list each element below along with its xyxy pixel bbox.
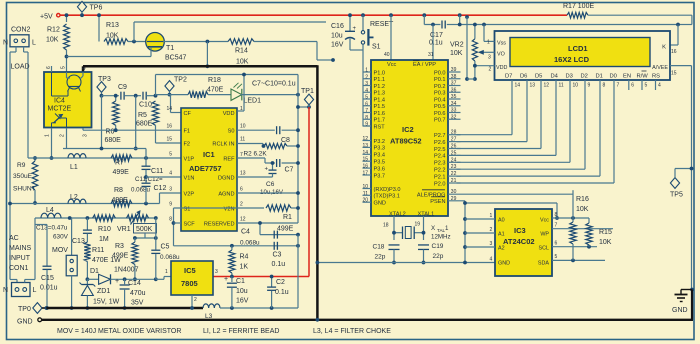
svg-text:R8: R8 [114, 187, 123, 194]
svg-text:R18: R18 [208, 77, 221, 84]
svg-text:TP5: TP5 [670, 192, 683, 199]
svg-text:SCL: SCL [539, 246, 550, 252]
svg-text:S0: S0 [228, 129, 235, 135]
pin 1 [51, 128, 53, 158]
svg-text:P1.5: P1.5 [374, 104, 386, 110]
svg-text:AT24C02: AT24C02 [503, 237, 535, 246]
svg-text:15: 15 [362, 157, 368, 163]
svg-text:9: 9 [588, 83, 591, 89]
IC3 right pins [552, 217, 589, 219]
svg-text:2: 2 [194, 297, 197, 303]
svg-text:ALE/PROG: ALE/PROG [417, 193, 446, 199]
svg-text:19: 19 [415, 222, 421, 228]
wire black riser to GND line [691, 290, 693, 320]
switch S1 RESET [361, 13, 365, 17]
svg-text:C2: C2 [276, 279, 285, 286]
svg-text:IC5: IC5 [184, 266, 196, 275]
test point TP2 [165, 81, 174, 92]
resistor R18 [188, 91, 208, 97]
svg-text:10u: 10u [331, 33, 343, 40]
svg-text:SDA: SDA [538, 261, 549, 267]
svg-text:IC3: IC3 [514, 226, 526, 235]
ground symbol [690, 288, 694, 292]
svg-text:P2.6: P2.6 [434, 140, 446, 146]
svg-text:13: 13 [240, 171, 246, 177]
svg-text:C8: C8 [281, 137, 290, 144]
svg-text:1: 1 [487, 40, 490, 46]
inductor L2 [68, 199, 86, 203]
IC3 left pins [465, 218, 495, 220]
svg-text:N: N [3, 287, 8, 294]
svg-text:INPUT: INPUT [9, 255, 31, 262]
svg-text:680E: 680E [136, 121, 153, 128]
svg-text:VDD: VDD [496, 65, 507, 71]
filter choke L4 row [35, 217, 156, 219]
svg-text:0.1u: 0.1u [272, 261, 286, 268]
svg-text:TP6: TP6 [90, 5, 103, 12]
svg-text:IC4: IC4 [54, 98, 65, 105]
svg-text:C18: C18 [373, 244, 385, 251]
LED1 [231, 89, 242, 100]
energy meter IC1 ADE7757 [181, 108, 237, 231]
svg-text:L: L [32, 40, 36, 47]
svg-text:P2.4: P2.4 [434, 154, 446, 160]
svg-text:5: 5 [555, 254, 558, 260]
svg-text:D0: D0 [610, 74, 617, 80]
wire row to IC4 pin2 [63, 148, 146, 150]
capacitor C19 [418, 244, 429, 246]
svg-text:TP1: TP1 [301, 88, 314, 95]
resistor R8 [111, 200, 132, 206]
svg-text:RCLK IN: RCLK IN [212, 141, 234, 147]
svg-text:RESERVED: RESERVED [204, 221, 235, 227]
svg-text:P3.7: P3.7 [374, 173, 386, 179]
wire PSEN to IC3 col [448, 200, 465, 202]
svg-text:C11: C11 [151, 168, 163, 175]
svg-text:A2: A2 [498, 246, 505, 252]
svg-text:S1: S1 [184, 206, 191, 212]
resistor R11 [86, 234, 88, 242]
varistor MOV [71, 218, 73, 255]
svg-text:P1.1: P1.1 [374, 77, 386, 83]
svg-text:F2: F2 [184, 141, 191, 147]
svg-text:4: 4 [658, 83, 661, 89]
svg-text:XTAL1: XTAL1 [418, 211, 435, 217]
svg-text:CON2: CON2 [11, 27, 31, 34]
resistor R10 [93, 215, 116, 221]
svg-text:R13: R13 [106, 22, 119, 29]
svg-text:P2.2: P2.2 [434, 168, 446, 174]
wire C3 row [174, 245, 299, 247]
svg-text:14: 14 [515, 83, 521, 89]
svg-text:VDD: VDD [223, 111, 235, 117]
svg-text:R5: R5 [138, 112, 147, 119]
svg-text:1: 1 [165, 269, 168, 275]
svg-text:C16: C16 [331, 23, 344, 30]
svg-text:R2 6.2K: R2 6.2K [244, 151, 268, 158]
svg-text:VO: VO [497, 52, 505, 58]
svg-text:AC: AC [9, 235, 19, 242]
svg-text:7805: 7805 [181, 279, 198, 288]
svg-text:LED1: LED1 [244, 98, 262, 105]
svg-text:P2.7: P2.7 [434, 133, 446, 139]
svg-text:6: 6 [555, 241, 558, 247]
svg-text:5: 5 [645, 83, 648, 89]
capacitor C14 [124, 279, 126, 284]
svg-text:470u: 470u [130, 290, 146, 297]
svg-text:P0.6: P0.6 [434, 111, 446, 117]
svg-text:Vss: Vss [497, 41, 506, 47]
svg-text:1K: 1K [240, 264, 249, 271]
svg-text:16V: 16V [236, 298, 249, 305]
svg-text:A0: A0 [498, 218, 505, 224]
svg-text:2: 2 [489, 67, 492, 73]
wire S0 row with C8 [237, 129, 275, 131]
svg-text:8: 8 [555, 212, 558, 218]
wire CON1 L up [24, 280, 26, 283]
zener ZD1 [86, 279, 88, 284]
svg-text:0.068u: 0.068u [160, 254, 180, 261]
wire top loop row [156, 74, 299, 76]
inductor L3 [203, 304, 220, 308]
svg-text:12: 12 [362, 136, 368, 142]
display LCD1 16X2 [495, 31, 671, 80]
svg-text:R10: R10 [98, 226, 111, 233]
svg-text:12: 12 [240, 217, 246, 223]
svg-text:0.068u: 0.068u [240, 240, 260, 247]
svg-text:R12: R12 [47, 27, 60, 34]
wire R14 to TP4 column [254, 41, 317, 43]
wire ground rail [317, 262, 495, 264]
resistor R2 [237, 143, 263, 145]
svg-text:0.068u: 0.068u [131, 187, 150, 194]
capacitor C13 [86, 218, 88, 230]
capacitor C6 [237, 176, 273, 178]
capacitor C18 [389, 244, 400, 246]
wire S1/SCF tie [174, 207, 238, 209]
svg-text:R1: R1 [283, 214, 292, 221]
wire C4 row [260, 234, 298, 236]
resistor R15 [588, 218, 590, 223]
svg-text:3: 3 [490, 241, 493, 247]
svg-text:ADE7757: ADE7757 [189, 164, 222, 173]
svg-text:C13=0.47u: C13=0.47u [36, 225, 68, 232]
wire R17 to LCD K [588, 14, 692, 16]
wire row B to V2P [159, 193, 161, 204]
svg-text:22p: 22p [433, 253, 444, 260]
capacitor C1 [231, 277, 233, 283]
svg-text:IC2: IC2 [402, 125, 414, 134]
svg-text:A/VEE: A/VEE [652, 65, 668, 71]
inductor L1 [68, 154, 86, 158]
resistor R14 [228, 39, 254, 45]
svg-text:P2.0: P2.0 [434, 181, 446, 187]
svg-text:SCF: SCF [184, 221, 196, 227]
svg-text:10: 10 [362, 184, 368, 190]
svg-text:3: 3 [169, 187, 172, 193]
resistor R4 [229, 250, 235, 273]
wire IC3 top wrap [465, 202, 557, 204]
svg-text:31: 31 [428, 52, 434, 58]
svg-text:R3: R3 [115, 243, 124, 250]
svg-text:5: 5 [169, 152, 172, 158]
pin 3 [82, 128, 84, 130]
svg-text:10K: 10K [599, 239, 612, 246]
svg-text:D7: D7 [505, 74, 512, 80]
svg-text:5: 5 [61, 66, 67, 69]
svg-text:20: 20 [362, 198, 368, 204]
wire left feeder to CON1 [10, 279, 17, 281]
svg-text:14: 14 [166, 106, 172, 112]
resistor R17 [567, 12, 588, 18]
svg-text:R4: R4 [240, 254, 249, 261]
wires LCD data to IC2 P2 [511, 90, 513, 135]
svg-text:10K: 10K [236, 59, 249, 66]
svg-text:470E 1W: 470E 1W [92, 257, 121, 264]
svg-text:11: 11 [363, 191, 368, 197]
svg-text:PSEN: PSEN [430, 199, 445, 205]
svg-text:P3.3: P3.3 [374, 146, 386, 152]
svg-text:D4: D4 [551, 74, 559, 80]
svg-text:C14: C14 [128, 280, 141, 287]
svg-text:0.01u: 0.01u [40, 285, 58, 292]
capacitor C11 [145, 149, 147, 166]
svg-text:15V, 1W: 15V, 1W [93, 299, 120, 306]
svg-text:4: 4 [82, 67, 88, 70]
wire TP3 column down [101, 96, 103, 149]
svg-text:R6: R6 [106, 129, 115, 136]
pin 2 [66, 128, 68, 149]
svg-text:P0.2: P0.2 [434, 84, 446, 90]
svg-text:CON1: CON1 [9, 265, 29, 272]
svg-text:Vcc: Vcc [540, 218, 549, 224]
svg-text:R7: R7 [115, 160, 124, 167]
wire backlight return row [460, 24, 678, 26]
test point TP6 [77, 1, 86, 12]
svg-text:2: 2 [490, 227, 493, 233]
wire opto inner collector [66, 72, 68, 78]
svg-text:680E: 680E [105, 137, 122, 144]
svg-text:R9: R9 [17, 162, 26, 169]
svg-text:N: N [3, 40, 8, 47]
svg-text:ZD1: ZD1 [97, 288, 110, 295]
svg-text:0.1u: 0.1u [275, 289, 289, 296]
svg-text:11: 11 [240, 137, 245, 143]
capacitor C17 [422, 13, 426, 17]
svg-text:6: 6 [240, 187, 243, 193]
svg-text:P1.3: P1.3 [374, 91, 386, 97]
svg-text:16: 16 [166, 124, 172, 130]
svg-text:LOAD: LOAD [11, 64, 30, 71]
svg-text:499E: 499E [113, 169, 130, 176]
svg-text:+: + [265, 167, 269, 173]
svg-text:1: 1 [445, 225, 449, 232]
svg-text:GND: GND [498, 261, 510, 267]
svg-text:15: 15 [166, 137, 172, 143]
pin 6 [51, 66, 53, 72]
crystal XTAL1 12MHz [393, 216, 395, 240]
svg-text:P0.1: P0.1 [434, 77, 446, 83]
svg-text:A1: A1 [498, 232, 505, 238]
inductor L4 [41, 213, 61, 218]
svg-text:12MHz: 12MHz [431, 234, 451, 241]
svg-text:16: 16 [362, 164, 368, 170]
wire current row B [10, 203, 160, 205]
svg-text:EN: EN [623, 74, 631, 80]
svg-text:XTAL2: XTAL2 [389, 211, 406, 217]
svg-text:+: + [115, 278, 119, 285]
svg-text:3: 3 [215, 269, 218, 275]
svg-text:C6: C6 [266, 181, 275, 188]
svg-text:R/W: R/W [637, 74, 649, 80]
svg-text:LCD1: LCD1 [568, 44, 588, 53]
svg-text:V2N: V2N [224, 206, 235, 212]
svg-text:40: 40 [384, 52, 390, 58]
svg-text:0.1u: 0.1u [429, 40, 443, 47]
svg-text:4: 4 [490, 257, 493, 263]
wire C4 jog [259, 223, 261, 235]
svg-text:DGND: DGND [218, 175, 234, 181]
wire R5 top to loop [155, 75, 157, 96]
svg-text:WP: WP [540, 232, 549, 238]
svg-text:L4: L4 [46, 207, 54, 214]
svg-text:13: 13 [530, 83, 536, 89]
wire AGND row [237, 192, 298, 194]
svg-text:6: 6 [631, 83, 634, 89]
svg-text:11: 11 [559, 83, 564, 89]
svg-text:P0.0: P0.0 [434, 70, 446, 76]
svg-text:CF: CF [184, 111, 192, 117]
svg-text:10: 10 [573, 83, 579, 89]
svg-text:GND: GND [672, 307, 688, 314]
wire LOAD right [23, 47, 25, 52]
svg-text:C7: C7 [285, 167, 294, 174]
svg-text:470E: 470E [207, 87, 224, 94]
svg-text:(TXD)P3.1: (TXD)P3.1 [374, 194, 400, 200]
capacitor C15 [35, 224, 47, 226]
svg-text:R17 100E: R17 100E [563, 3, 594, 10]
svg-text:D1: D1 [90, 268, 99, 275]
svg-text:VR1: VR1 [117, 226, 131, 233]
svg-text:500K: 500K [136, 226, 153, 233]
svg-text:GND: GND [17, 319, 33, 326]
svg-text:MCT2E: MCT2E [48, 106, 72, 113]
svg-text:P0.5: P0.5 [434, 104, 446, 110]
svg-text:AGND: AGND [218, 191, 234, 197]
eeprom IC3 AT24C02 [495, 209, 552, 276]
svg-text:P1.4: P1.4 [374, 97, 386, 103]
resistor R1 [237, 207, 264, 209]
svg-text:P1.6: P1.6 [374, 111, 386, 117]
capacitor C3 [273, 242, 275, 250]
svg-text:P3.4: P3.4 [374, 153, 386, 159]
svg-text:P2.3: P2.3 [434, 161, 446, 167]
wire Vss feed [482, 23, 486, 27]
svg-text:1N4007: 1N4007 [114, 267, 139, 274]
wire black mains line top [83, 65, 317, 68]
svg-text:350uE: 350uE [13, 173, 33, 180]
svg-text:2: 2 [240, 202, 243, 208]
svg-text:P1.7: P1.7 [374, 118, 386, 124]
svg-text:REF: REF [223, 156, 235, 162]
transistor T1 [146, 33, 165, 52]
svg-text:S1: S1 [372, 44, 381, 51]
svg-text:L3, L4 = FILTER CHOKE: L3, L4 = FILTER CHOKE [313, 328, 391, 335]
wire collector node [163, 41, 228, 43]
svg-text:D6: D6 [520, 74, 527, 80]
svg-text:C3: C3 [273, 252, 282, 259]
svg-text:499E: 499E [112, 197, 129, 204]
svg-text:8: 8 [169, 217, 172, 223]
wire RST [363, 125, 371, 127]
svg-text:499E: 499E [277, 226, 294, 233]
svg-text:P1.2: P1.2 [374, 84, 386, 90]
svg-text:10K: 10K [106, 33, 119, 40]
wire loop right column [297, 75, 299, 224]
svg-text:R14: R14 [235, 48, 248, 55]
svg-text:TP0: TP0 [18, 306, 31, 313]
svg-text:TP2: TP2 [174, 77, 187, 84]
svg-text:+: + [224, 276, 228, 283]
svg-text:13: 13 [362, 143, 368, 149]
wire base to P3.2 link [134, 21, 326, 23]
svg-text:BC547: BC547 [165, 55, 187, 62]
svg-text:P0.4: P0.4 [434, 97, 446, 103]
wire EA/VPP [431, 23, 435, 27]
svg-text:1: 1 [490, 213, 493, 219]
resistor R12 [66, 15, 68, 22]
wiper to VO [480, 51, 495, 53]
svg-text:C19: C19 [432, 243, 444, 250]
resistor R13 [98, 15, 100, 41]
svg-text:D1: D1 [596, 74, 603, 80]
svg-text:L1: L1 [70, 164, 78, 171]
svg-text:18: 18 [383, 223, 389, 229]
svg-text:IC1: IC1 [203, 150, 215, 159]
wire C9/C10 mid column [135, 96, 137, 149]
svg-text:L: L [33, 287, 37, 294]
resistor R5 [152, 101, 158, 125]
svg-text:16V: 16V [331, 42, 344, 49]
svg-text:MAINS: MAINS [9, 245, 32, 252]
wire ALE to R16 [448, 193, 573, 195]
capacitor C2 [271, 277, 273, 287]
resistor R6 [115, 96, 117, 101]
wire analog top row [102, 95, 119, 97]
wire black vertical [316, 65, 319, 320]
test point TP3 [97, 82, 106, 93]
capacitor C9 [120, 92, 122, 100]
svg-text:AT89C52: AT89C52 [390, 137, 422, 146]
svg-text:35V: 35V [131, 300, 144, 307]
resistor R16 [572, 190, 574, 222]
svg-text:+: + [353, 26, 357, 32]
svg-text:16: 16 [671, 49, 677, 55]
svg-text:P1.0: P1.0 [374, 70, 386, 76]
wire black neutral line [46, 307, 203, 309]
svg-text:10K: 10K [576, 206, 589, 213]
wire TP1 tie [298, 106, 309, 108]
svg-text:C1: C1 [236, 278, 245, 285]
svg-text:10u: 10u [236, 288, 248, 295]
svg-text:L2: L2 [70, 194, 78, 201]
microcontroller IC2 AT89C52 [371, 60, 448, 216]
svg-text:C5: C5 [161, 244, 170, 251]
svg-text:4: 4 [169, 171, 172, 177]
svg-text:C7~C10=0.1u: C7~C10=0.1u [252, 81, 296, 88]
wire RESERVED row [237, 222, 298, 224]
capacitor C5 [155, 218, 157, 250]
